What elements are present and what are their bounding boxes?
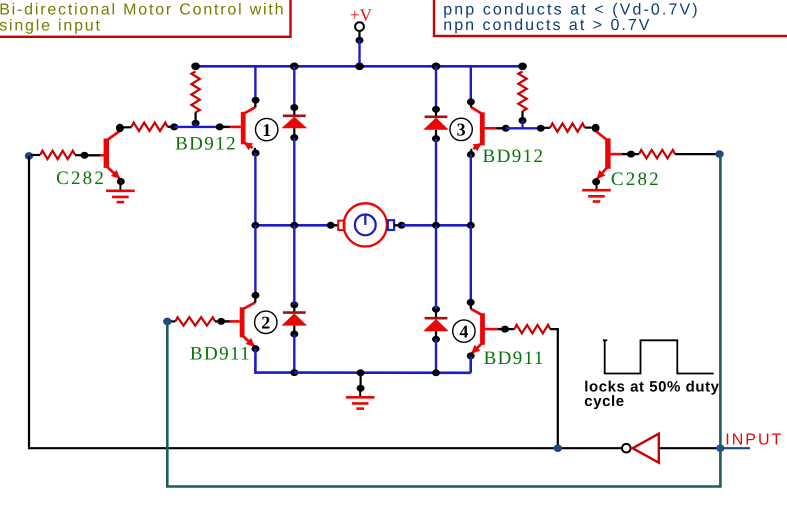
inverter U1 xyxy=(622,434,659,463)
ground symbol center xyxy=(346,388,375,409)
junction bottom rail / ground stub xyxy=(357,369,365,376)
+V supply terminal xyxy=(355,22,364,40)
junction D2 bottom dot xyxy=(290,331,298,338)
wire R3 to dot xyxy=(75,154,81,156)
wire bus to Q1 collector xyxy=(254,66,256,97)
node INPUT net left (teal dot) xyxy=(163,318,171,326)
wire bus to D3 xyxy=(435,66,437,106)
wire R8 to drop corner xyxy=(550,329,558,448)
diode D2 (across Q2) xyxy=(282,305,308,334)
svg-text:C282: C282 xyxy=(56,168,106,189)
wire R6 to INPUT net corner xyxy=(675,153,716,155)
wire Q2 emitter to bottom rail corner xyxy=(255,349,294,373)
junction Q6 base dot xyxy=(627,151,635,158)
junction Q3 base dot xyxy=(502,125,510,132)
junction Q4-base drop on inverter line xyxy=(554,444,562,452)
resistor R8 (Q4 base) xyxy=(514,325,550,333)
resistor R2 (Q3 base pull-up) xyxy=(518,72,526,112)
junction D2 top dot xyxy=(290,301,298,308)
transistor Q6 C282 (right) xyxy=(596,132,622,180)
designator circle 1 xyxy=(256,118,278,140)
wire Q1 emitter stub xyxy=(254,148,256,153)
junction dot below +V terminal xyxy=(356,37,364,44)
title box xyxy=(0,0,291,37)
junction motor right terminal dot xyxy=(398,222,406,229)
wire Q6 emitter stub xyxy=(595,178,597,182)
wire motor rail down to Q4 collector xyxy=(470,225,472,299)
transistor Q5 C282 (left) xyxy=(100,132,120,180)
resistor R6 (Q6 base) xyxy=(639,150,675,158)
wire Q2 base stub xyxy=(223,320,230,322)
junction Q2 collector dot xyxy=(252,292,260,299)
wire R2 node drop to base rail xyxy=(521,121,523,129)
wire motor rail down to Q2 collector xyxy=(254,225,256,292)
ground symbol left xyxy=(106,182,135,203)
svg-text:4: 4 xyxy=(459,321,468,341)
junction motor rail / D1-D2 column xyxy=(290,222,298,229)
wire to R6 xyxy=(634,153,640,155)
junction motor rail / D3-D4 column xyxy=(432,222,440,229)
svg-text:BD911: BD911 xyxy=(484,348,545,369)
node input-left junction (teal dot) xyxy=(25,152,33,160)
wire Q6 collector stub xyxy=(594,125,596,132)
wire motor rail to D2 xyxy=(293,225,295,305)
resistor R4 (Q5 collector to Q1 base) xyxy=(132,123,168,131)
wire Q6 base stub xyxy=(622,153,628,155)
junction right base rail dot xyxy=(537,125,545,132)
junction R2 bottom node xyxy=(519,117,527,124)
wire R7 to dot xyxy=(215,320,218,322)
top supply bus wire xyxy=(196,65,523,68)
transistor Q3 BD912 (top-right PNP) xyxy=(471,107,496,151)
wire motor right terminal lead xyxy=(394,224,399,226)
junction bus left end / R1 top xyxy=(191,63,200,71)
junction left base rail dot B / Q1 base xyxy=(216,123,224,130)
wire left feedback: node down and along bottom (black) xyxy=(29,156,622,448)
junction Q6 collector node xyxy=(592,124,600,132)
svg-text:single input: single input xyxy=(0,18,102,35)
wire bus to Q3 collector xyxy=(470,66,472,99)
ground symbol right xyxy=(582,181,611,202)
junction left base rail dot A xyxy=(170,123,178,130)
svg-text:Bi-directional Motor Control w: Bi-directional Motor Control with xyxy=(0,2,285,19)
wire inverter input from INPUT node xyxy=(659,447,717,449)
svg-text:INPUT: INPUT xyxy=(725,431,783,448)
wire Q2 collector stub xyxy=(254,296,256,303)
junction Q3 collector dot xyxy=(467,98,475,105)
wire node to R3 xyxy=(31,154,40,156)
resistor R5 (Q6 collector to Q3 base) xyxy=(550,123,585,131)
wire Q3 base stub xyxy=(497,127,503,129)
wire R2 bottom stub xyxy=(521,111,523,119)
wire D2 to bottom rail xyxy=(293,334,295,373)
node INPUT junction dot xyxy=(716,444,724,452)
designator circle 4 xyxy=(453,320,475,342)
wire Q4 collector stub xyxy=(470,303,472,310)
junction bus right end / R2 top xyxy=(518,63,527,71)
wire D1 to motor rail xyxy=(293,138,295,226)
junction D3 bottom dot xyxy=(432,135,440,142)
wire +V to bus xyxy=(358,40,360,66)
junction motor rail / Q3-Q4 column xyxy=(467,222,475,229)
junction Q1 emitter dot xyxy=(252,150,260,157)
waveform annotation (50% duty) xyxy=(603,340,714,373)
wire base lead into Q5 xyxy=(87,154,104,156)
resistor R3 (Q5 base) xyxy=(40,151,75,159)
svg-text:1: 1 xyxy=(262,120,271,140)
junction Q6 emitter dot xyxy=(592,178,600,185)
svg-text:2: 2 xyxy=(261,313,270,333)
junction Q5 collector node xyxy=(116,124,124,132)
diode D1 (across Q1) xyxy=(282,108,308,138)
transistor Q4 BD911 (bottom-right NPN) xyxy=(471,309,498,354)
junction Q4 base dot xyxy=(501,326,509,333)
wire ground stub xyxy=(360,373,362,385)
junction Q5 emitter dot xyxy=(117,178,125,185)
wire Q4 emitter to bottom rail corner xyxy=(469,356,472,373)
designator circle 3 xyxy=(450,118,472,140)
wire R1 node drop to base rail xyxy=(195,123,197,127)
wire Q3 emitter down to motor rail xyxy=(470,155,472,226)
junction D1 anode-top dot xyxy=(290,104,298,111)
resistor R7 (Q2 base) xyxy=(175,317,215,325)
junction D4 bottom dot xyxy=(432,336,440,343)
motor M1 xyxy=(338,203,394,246)
wire to R5 xyxy=(543,127,550,129)
junction D1 bottom dot xyxy=(290,134,298,141)
wire motor rail to D4 xyxy=(435,225,437,309)
wire motor left terminal lead xyxy=(333,224,339,226)
note box (pnp/npn) xyxy=(434,0,787,36)
wire bottom bridge rail xyxy=(294,371,471,374)
svg-text:BD912: BD912 xyxy=(483,146,545,167)
wire Q4 emitter stub xyxy=(470,353,472,356)
resistor R1 (Q1 base pull-up) xyxy=(191,72,199,113)
wire left base rail xyxy=(174,126,220,128)
node INPUT net top-right corner (teal dot) xyxy=(715,150,723,158)
wire R1 bottom stub xyxy=(195,112,197,121)
diode D4 (across Q4) xyxy=(423,309,449,339)
wire R4 leads xyxy=(122,126,132,128)
wire R5 to Q6 collector node xyxy=(585,126,592,128)
junction D3 top dot xyxy=(432,106,440,113)
junction Q1 collector dot xyxy=(252,97,260,104)
junction D1 top on bus xyxy=(290,63,299,71)
junction Q3 emitter dot xyxy=(467,151,475,158)
junction bottom rail / D4 xyxy=(432,369,440,376)
junction Q2 base dot xyxy=(217,318,225,325)
svg-text:C282: C282 xyxy=(611,169,661,190)
wire Q1 collector stub xyxy=(254,100,256,107)
junction bottom rail / D2 xyxy=(290,369,298,376)
wire motor rail right xyxy=(402,224,471,227)
svg-text:BD911: BD911 xyxy=(190,344,251,365)
wire INPUT stub xyxy=(720,447,750,449)
wire Q5 emitter stub xyxy=(119,178,121,181)
junction Q4 emitter dot xyxy=(467,352,475,359)
wire teal node to R7 xyxy=(170,320,176,322)
transistor Q2 BD911 (bottom-left NPN) xyxy=(230,303,256,348)
diode D3 (across Q3) xyxy=(423,109,449,138)
junction ground dot xyxy=(357,385,365,392)
wire right base rail xyxy=(506,127,541,129)
wire Q1 base stub xyxy=(222,126,230,128)
junction D3 top on bus xyxy=(432,63,441,71)
designator circle 2 xyxy=(255,311,277,333)
junction motor rail / Q1-Q2 column xyxy=(251,222,259,229)
wire to R8 xyxy=(508,328,515,330)
wire Q3 emitter stub xyxy=(470,149,472,155)
junction Q2 emitter dot xyxy=(252,345,260,352)
wire Q5 collector stub xyxy=(119,125,121,132)
junction Q4 collector dot xyxy=(467,299,475,306)
svg-text:BD912: BD912 xyxy=(175,134,237,155)
svg-text:3: 3 xyxy=(457,120,466,140)
wire motor rail left xyxy=(255,224,330,227)
wire Q1 emitter down to motor rail xyxy=(254,153,256,225)
svg-text:+V: +V xyxy=(350,6,373,25)
wire Q4 base stub xyxy=(498,328,502,330)
junction motor left terminal dot xyxy=(327,222,335,229)
wire teal INPUT net xyxy=(167,154,720,486)
junction R1 bottom node xyxy=(192,120,200,127)
junction +V on bus xyxy=(355,63,364,71)
wire bus to D1 xyxy=(293,66,295,104)
wire D3 to motor rail xyxy=(435,139,437,226)
junction Q5 base dot xyxy=(81,152,89,159)
wire Q3 collector stub xyxy=(470,101,472,107)
wire D4 to bottom rail xyxy=(435,339,437,373)
svg-text:cycle: cycle xyxy=(584,393,624,410)
transistor Q1 BD912 (top-left PNP) xyxy=(230,107,256,150)
svg-text:npn conducts at > 0.7V: npn conducts at > 0.7V xyxy=(443,17,651,34)
wire Q2 emitter stub xyxy=(254,346,256,349)
junction D4 top dot xyxy=(432,306,440,313)
